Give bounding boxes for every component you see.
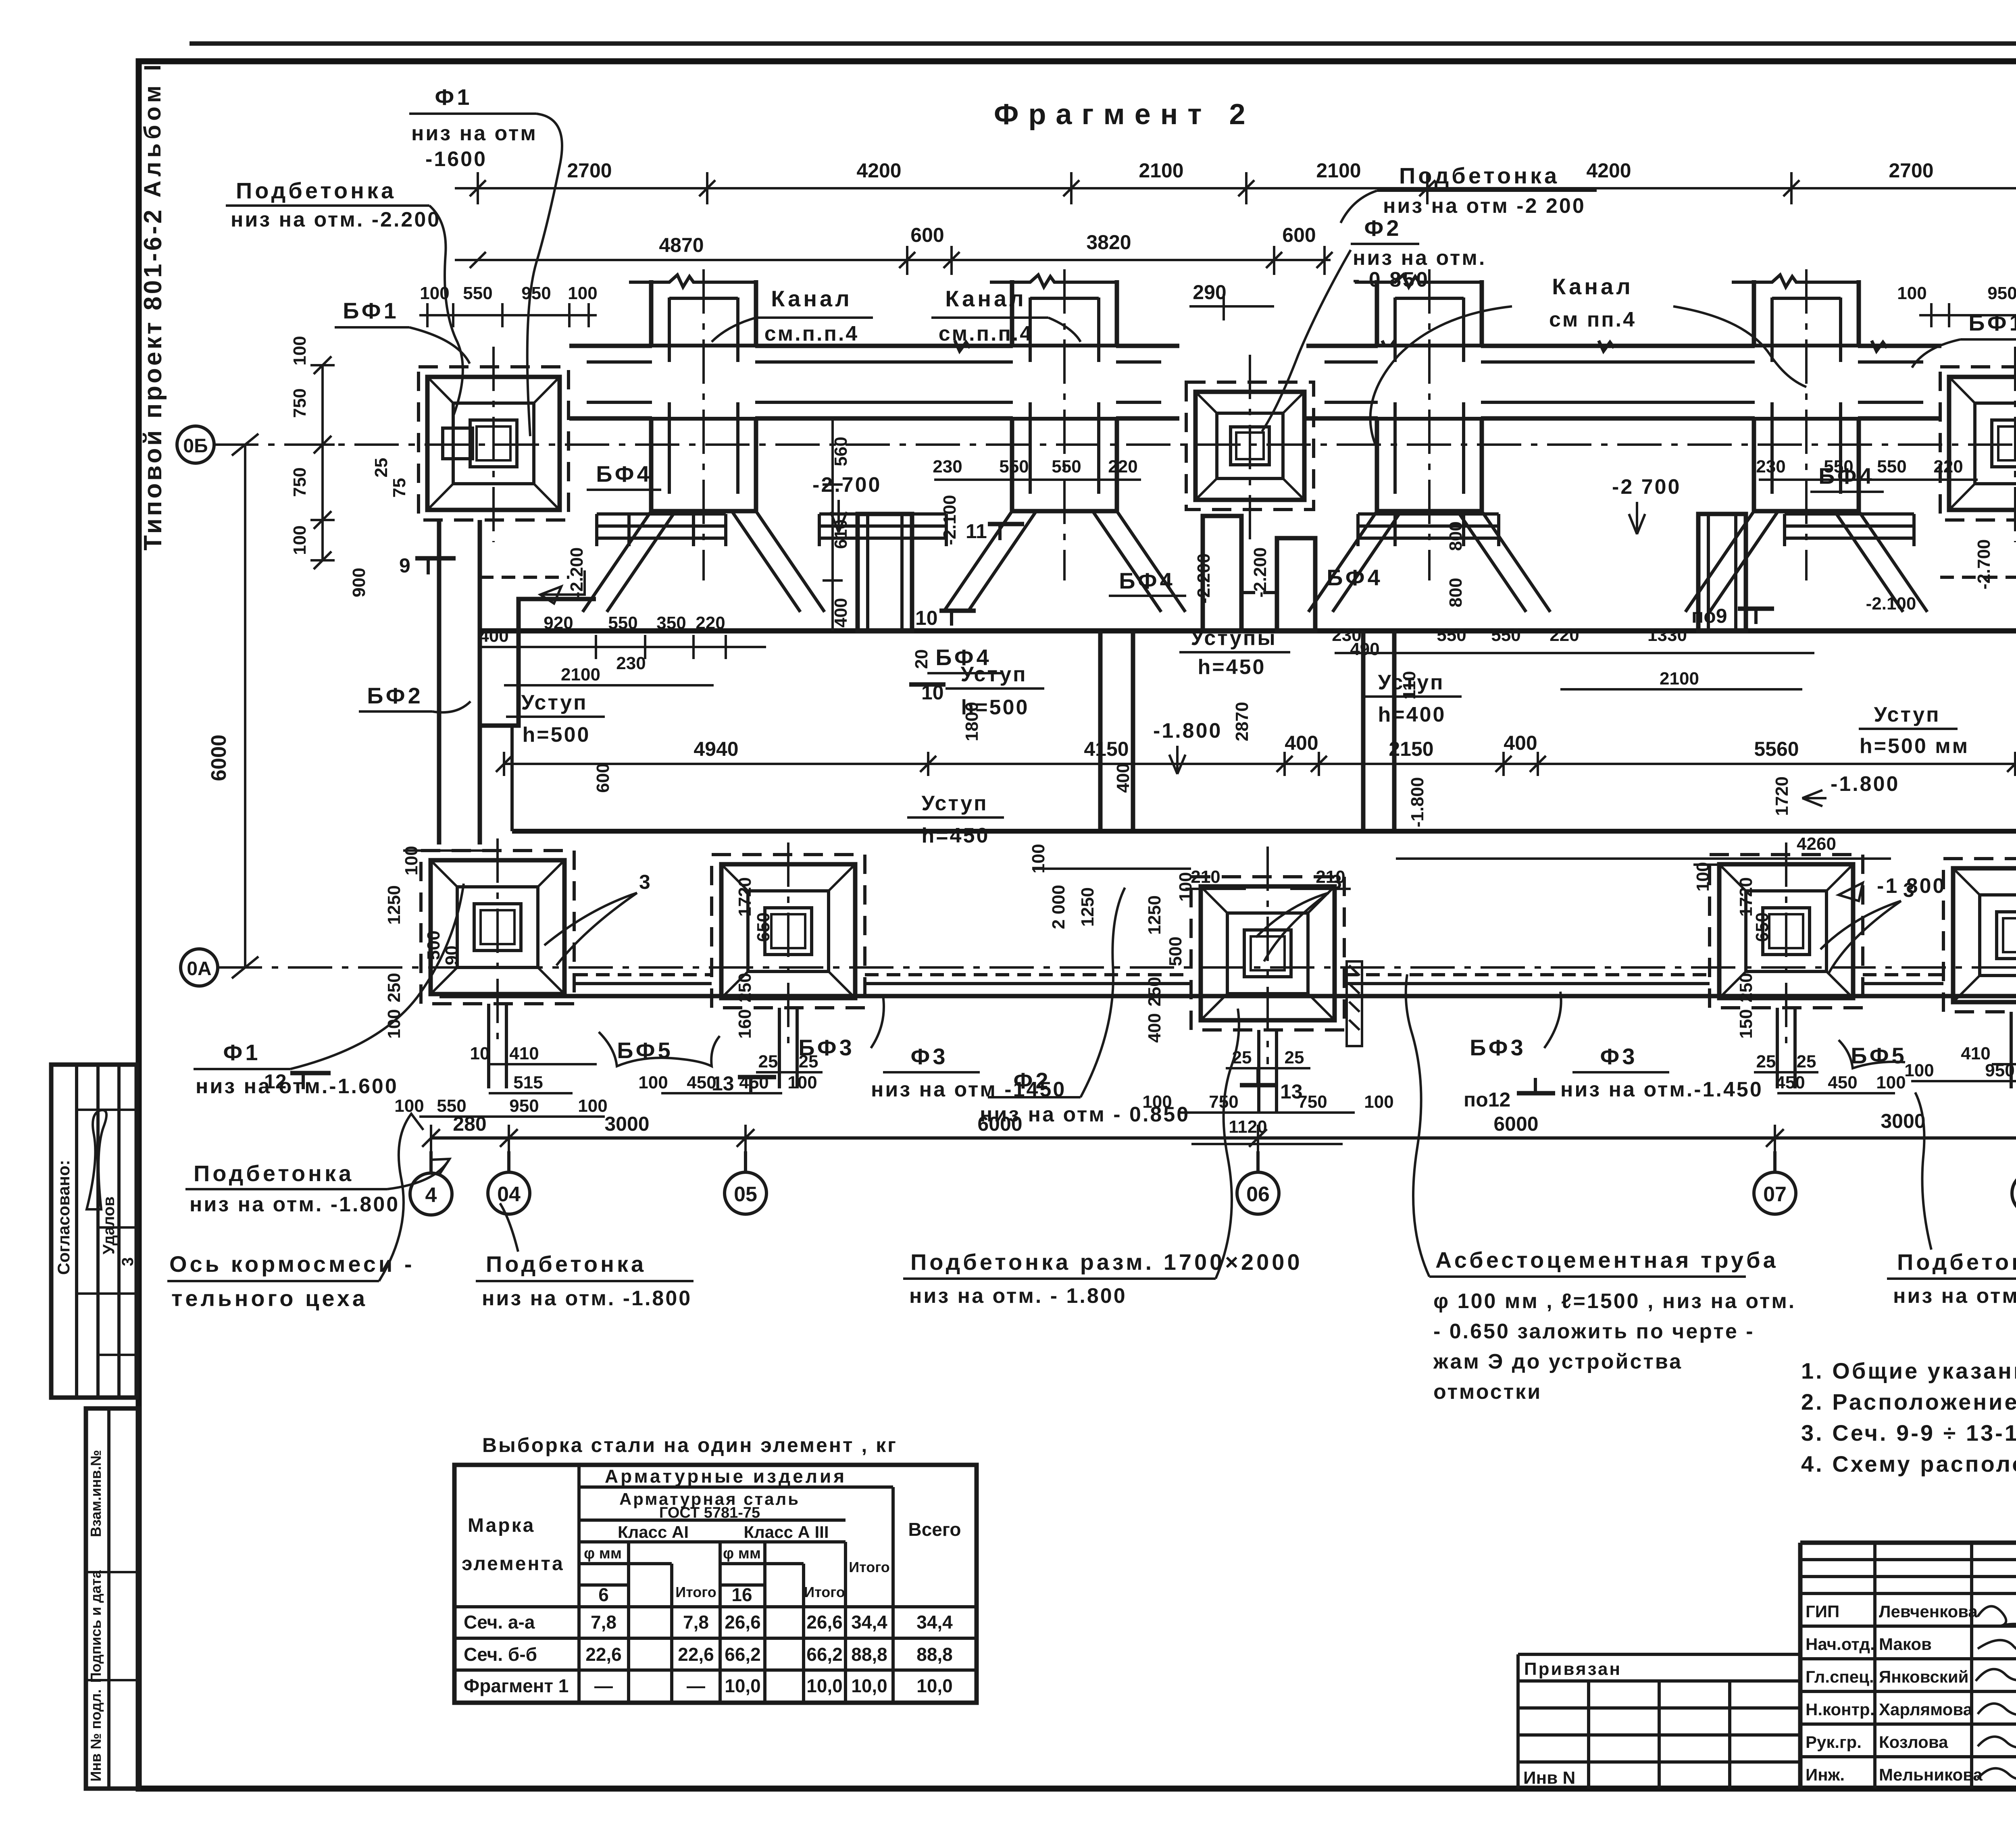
svg-text:Подбетонка разм. 1700×2000: Подбетонка разм. 1700×2000	[910, 1249, 1303, 1275]
svg-text:750: 750	[290, 467, 310, 497]
svg-text:низ на отм: низ на отм	[411, 122, 537, 145]
svg-text:75: 75	[389, 478, 409, 498]
svg-text:100: 100	[290, 525, 310, 555]
svg-text:650: 650	[754, 912, 773, 942]
svg-text:-2.100: -2.100	[1866, 594, 1916, 614]
svg-text:БФ4: БФ4	[1818, 463, 1874, 489]
svg-text:290: 290	[1193, 281, 1226, 304]
svg-text:1720: 1720	[1736, 877, 1756, 917]
svg-text:2100: 2100	[1660, 669, 1699, 689]
svg-text:13: 13	[712, 1072, 734, 1095]
svg-text:Согласовано:: Согласовано:	[54, 1160, 73, 1275]
svg-text:φ мм: φ мм	[584, 1545, 622, 1562]
signatures squiggles	[1976, 1606, 2016, 1780]
svg-text:100: 100	[578, 1096, 607, 1116]
svg-text:см.п.п.4: см.п.п.4	[939, 322, 1033, 345]
page top trim line	[190, 42, 2016, 46]
svg-text:Гл.спец.: Гл.спец.	[1806, 1667, 1874, 1686]
svg-text:Ось кормосмеси -: Ось кормосмеси -	[169, 1251, 415, 1277]
290 small dim	[1189, 305, 1274, 308]
svg-text:160: 160	[735, 1009, 755, 1038]
svg-text:Харлямова: Харлямова	[1879, 1700, 1973, 1719]
svg-text:низ на отм.: низ на отм.	[1353, 246, 1486, 270]
svg-text:1250: 1250	[384, 885, 404, 925]
svg-text:3: 3	[639, 871, 650, 893]
svg-text:550: 550	[463, 283, 492, 303]
svg-text:по9: по9	[1691, 605, 1727, 627]
svg-text:Ф3: Ф3	[1600, 1044, 1638, 1069]
svg-text:220: 220	[696, 613, 725, 633]
svg-text:2700: 2700	[1889, 159, 1933, 182]
100 vertical tags above bottom footings	[402, 844, 2016, 901]
svg-text:150: 150	[1736, 1009, 1756, 1038]
svg-text:Подбетонка: Подбетонка	[1897, 1249, 2016, 1275]
svg-text:950: 950	[521, 283, 551, 303]
cross 1	[583, 269, 825, 612]
svg-text:610: 610	[831, 519, 851, 549]
step notch left -2.200	[480, 599, 596, 726]
svg-text:600: 600	[593, 763, 613, 793]
svg-text:100: 100	[1876, 1073, 1906, 1092]
svg-text:515: 515	[513, 1073, 543, 1092]
svg-text:06: 06	[1246, 1183, 1270, 1206]
svg-text:Козлова: Козлова	[1879, 1733, 1948, 1751]
horizontals	[454, 1487, 977, 1670]
svg-text:600: 600	[910, 224, 944, 246]
svg-text:950: 950	[1985, 1061, 2014, 1080]
svg-text:0А: 0А	[187, 958, 211, 980]
svg-text:22,6: 22,6	[585, 1644, 622, 1665]
svg-text:1. Общие указания см. листы 1,: 1. Общие указания см. листы 1,2.	[1801, 1358, 2016, 1383]
svg-text:220: 220	[1549, 625, 1579, 645]
svg-text:410: 410	[509, 1044, 539, 1063]
svg-text:-1.800: -1.800	[1153, 719, 1222, 743]
svg-text:230: 230	[1756, 457, 1785, 476]
right dim chain y1560: 230 550 550 220 1330 / 2100	[1332, 625, 1814, 689]
svg-text:100: 100	[1897, 283, 1926, 303]
svg-text:950: 950	[1987, 283, 2016, 303]
svg-text:Уступ: Уступ	[1874, 703, 1940, 726]
svg-text:низ на отм.-1.450: низ на отм.-1.450	[1560, 1078, 1763, 1101]
svg-text:800: 800	[1446, 578, 1466, 607]
beams along axis 0A	[439, 994, 2016, 998]
svg-text:Итого: Итого	[675, 1584, 716, 1600]
svg-text:26,6: 26,6	[725, 1612, 761, 1633]
svg-text:25: 25	[1797, 1052, 1816, 1071]
svg-text:Левченкова: Левченкова	[1879, 1602, 1978, 1621]
svg-text:3. Сеч. 9-9 ÷ 13-13 см. лист 1: 3. Сеч. 9-9 ÷ 13-13 см. лист 15,14	[1801, 1420, 2016, 1446]
svg-text:11: 11	[966, 520, 987, 543]
svg-text:Подпись и дата: Подпись и дата	[87, 1570, 104, 1683]
left vertical dim chain at footing F1	[290, 336, 456, 597]
footing F1 top-left	[419, 283, 598, 542]
BF2 strip left vertical pair	[437, 520, 442, 845]
right footing bottom chain	[1911, 1080, 2016, 1082]
svg-text:250: 250	[1736, 973, 1756, 1002]
svg-text:4940: 4940	[694, 738, 738, 760]
lower foundation line	[512, 829, 2016, 834]
svg-text:10,0: 10,0	[851, 1675, 887, 1696]
svg-text:100: 100	[568, 283, 597, 303]
svg-text:05: 05	[734, 1183, 757, 1206]
svg-text:2150: 2150	[1389, 738, 1433, 760]
svg-text:Канал: Канал	[1552, 274, 1633, 299]
svg-text:низ на отм.-1.600: низ на отм.-1.600	[196, 1075, 398, 1098]
svg-text:Всего: Всего	[908, 1519, 961, 1540]
svg-text:-1.800: -1.800	[1831, 772, 1899, 796]
section markers bottom	[264, 1067, 2016, 1111]
svg-text:жам Э до устройства: жам Э до устройства	[1433, 1350, 1683, 1373]
svg-text:230: 230	[933, 457, 962, 476]
svg-text:-2.200: -2.200	[1250, 547, 1270, 598]
svg-text:БФ4: БФ4	[1327, 565, 1383, 590]
svg-text:900: 900	[349, 568, 369, 597]
svg-text:400: 400	[1504, 732, 1537, 754]
svg-text:25: 25	[1756, 1052, 1776, 1071]
main mid dim chain y1895	[496, 732, 2016, 776]
F1/F3/F2 bottom labels	[194, 884, 2016, 1126]
pedestal stems below footings	[489, 1004, 2016, 1113]
svg-text:34,4: 34,4	[851, 1612, 887, 1633]
understeps verticals to lower line	[1098, 631, 1103, 831]
svg-text:низ на отм. -2.200: низ на отм. -2.200	[231, 208, 441, 231]
svg-text:-1.800: -1.800	[1408, 777, 1427, 828]
ground baseline	[480, 628, 2016, 634]
channel wall double lines right segment	[1306, 344, 1941, 348]
svg-text:Класс А III: Класс А III	[744, 1523, 829, 1541]
data rows	[464, 1612, 953, 1696]
svg-text:3: 3	[1903, 879, 1914, 901]
svg-text:10,0: 10,0	[916, 1675, 953, 1696]
svg-text:2100: 2100	[1139, 159, 1183, 182]
svg-text:250: 250	[384, 973, 404, 1002]
top dim line row 1	[455, 187, 2016, 189]
svg-text:10: 10	[915, 607, 938, 629]
channel wall double lines left segment	[569, 344, 1179, 348]
dims above right footing	[1919, 314, 2016, 316]
svg-text:100: 100	[638, 1073, 668, 1092]
svg-text:Маков: Маков	[1879, 1635, 1932, 1654]
left dim chain y1545: 400 920 550 350 220	[479, 613, 766, 685]
vertical dim 6000 between axes	[244, 445, 246, 967]
svg-text:Н.контр.: Н.контр.	[1806, 1700, 1874, 1719]
svg-text:см пп.4: см пп.4	[1549, 308, 1636, 331]
svg-text:ГИП: ГИП	[1806, 1602, 1839, 1621]
svg-text:450: 450	[1775, 1073, 1805, 1092]
svg-text:550: 550	[1877, 457, 1906, 476]
cross 4	[1685, 269, 1927, 612]
axis circle 0B	[177, 426, 214, 463]
svg-text:650: 650	[1752, 912, 1772, 942]
svg-text:см.п.п.4: см.п.п.4	[764, 322, 859, 345]
svg-text:h=500: h=500	[523, 723, 591, 747]
svg-text:6: 6	[598, 1584, 609, 1605]
axis circle 0A	[181, 949, 218, 986]
svg-text:БФ1: БФ1	[1968, 310, 2016, 335]
svg-text:БФ5: БФ5	[1851, 1043, 1907, 1068]
svg-text:-2.200: -2.200	[1194, 553, 1214, 604]
svg-text:1720: 1720	[735, 877, 755, 917]
svg-text:низ на отм - 1.800: низ на отм - 1.800	[1893, 1284, 2016, 1308]
svg-text:Альбом I: Альбом I	[140, 60, 166, 198]
svg-text:Фрагмент 2: Фрагмент 2	[994, 98, 1255, 131]
sidebar table: agreed (Soglasovano)	[51, 1065, 137, 1398]
svg-text:6000: 6000	[977, 1113, 1022, 1135]
svg-text:500: 500	[1166, 936, 1185, 966]
svg-text:Марка: Марка	[468, 1515, 535, 1536]
svg-text:230: 230	[1332, 625, 1361, 645]
svg-text:Выборка стали на один элемент: Выборка стали на один элемент , кг	[482, 1434, 898, 1456]
left footing bottom chain	[419, 1115, 605, 1118]
top dim line row 2	[455, 259, 1331, 261]
svg-text:Уступы: Уступы	[1191, 626, 1277, 650]
footing 05 bottom	[712, 855, 865, 1008]
svg-text:350: 350	[656, 613, 686, 633]
svg-text:5560: 5560	[1754, 738, 1799, 760]
axis circles	[431, 1151, 2016, 1173]
svg-text:20: 20	[912, 649, 931, 669]
svg-text:Сеч. б-б: Сеч. б-б	[464, 1644, 537, 1665]
svg-text:4150: 4150	[1084, 738, 1129, 760]
svg-text:04: 04	[497, 1183, 521, 1206]
svg-text:3820: 3820	[1086, 231, 1131, 254]
svg-text:100: 100	[1693, 862, 1713, 891]
svg-text:Канал: Канал	[771, 286, 852, 311]
svg-text:7,8: 7,8	[683, 1612, 709, 1633]
svg-text:Итого: Итого	[804, 1584, 845, 1600]
svg-text:250: 250	[735, 973, 755, 1002]
svg-text:550: 550	[999, 457, 1029, 476]
svg-text:h=450: h=450	[1198, 655, 1266, 679]
piers below channel	[858, 514, 1746, 631]
outer pieces	[1800, 1541, 2016, 1545]
svg-text:22,6: 22,6	[678, 1644, 714, 1665]
BF4 labels	[587, 461, 1884, 673]
svg-text:230: 230	[616, 653, 646, 673]
svg-text:-2.100: -2.100	[940, 495, 960, 545]
svg-text:4. Схему расположения каналов: 4. Схему расположения каналов см лист 16…	[1801, 1451, 2016, 1477]
signature table	[1800, 1543, 2016, 1789]
svg-text:10,0: 10,0	[806, 1675, 843, 1696]
svg-text:h=400: h=400	[1378, 703, 1446, 726]
svg-text:Взам.инв.№: Взам.инв.№	[87, 1450, 104, 1537]
svg-text:Инж.: Инж.	[1806, 1765, 1845, 1784]
svg-text:—: —	[687, 1675, 705, 1696]
ustup callouts	[506, 626, 1969, 847]
svg-text:2870: 2870	[1232, 702, 1252, 741]
svg-text:2100: 2100	[1316, 159, 1361, 182]
svg-text:4260: 4260	[1797, 834, 1836, 854]
svg-text:280: 280	[453, 1113, 486, 1135]
svg-text:БФ4: БФ4	[596, 461, 652, 487]
svg-text:550: 550	[1052, 457, 1081, 476]
svg-text:1250: 1250	[1145, 895, 1164, 935]
asbestos pipe symbol	[1347, 961, 1362, 1046]
svg-text:Канал: Канал	[945, 286, 1027, 311]
svg-text:φ 100 мм , ℓ=1500 , низ на отм: φ 100 мм , ℓ=1500 , низ на отм.	[1433, 1290, 1796, 1313]
svg-text:Нач.отд.: Нач.отд.	[1806, 1635, 1875, 1654]
svg-text:66,2: 66,2	[806, 1644, 843, 1665]
svg-text:25: 25	[758, 1052, 778, 1071]
svg-text:БФ3: БФ3	[1470, 1035, 1526, 1060]
footing 08 bottom	[1943, 859, 2016, 1012]
svg-text:БФ1: БФ1	[343, 298, 399, 323]
svg-text:100: 100	[420, 283, 449, 303]
svg-text:—: —	[594, 1675, 613, 1696]
svg-text:3: 3	[1331, 871, 1342, 893]
sidebar strip: inv columns	[86, 1408, 139, 1789]
svg-text:Ф3: Ф3	[911, 1044, 948, 1069]
svg-text:220: 220	[1933, 457, 1963, 476]
svg-text:Янковский: Янковский	[1879, 1667, 1968, 1686]
svg-text:Привязан: Привязан	[1524, 1659, 1622, 1679]
svg-text:25: 25	[371, 458, 391, 478]
svg-text:БФ3: БФ3	[798, 1035, 854, 1060]
svg-text:250: 250	[1145, 977, 1164, 1006]
svg-text:Подбетонка: Подбетонка	[486, 1251, 646, 1277]
svg-text:560: 560	[831, 437, 851, 466]
svg-text:низ на отм. - 1.800: низ на отм. - 1.800	[909, 1284, 1127, 1308]
svg-text:450: 450	[1828, 1073, 1857, 1092]
svg-text:100: 100	[290, 336, 310, 365]
svg-text:500: 500	[424, 930, 444, 960]
svg-text:6000: 6000	[207, 734, 231, 781]
svg-text:10: 10	[470, 1044, 490, 1063]
svg-text:2. Расположение фрагмента см.: 2. Расположение фрагмента см. лист 11.	[1801, 1389, 2016, 1414]
svg-text:100: 100	[1904, 1061, 1934, 1080]
footing F2 top-middle	[1186, 355, 1314, 542]
"3" leaders on bottom footings	[544, 871, 1914, 974]
svg-text:- 0.650 заложить по черте -: - 0.650 заложить по черте -	[1433, 1320, 1755, 1343]
svg-text:Инв № подл.: Инв № подл.	[87, 1689, 104, 1782]
svg-text:550: 550	[608, 613, 637, 633]
svg-text:400: 400	[1145, 1013, 1164, 1042]
svg-text:Удалов: Удалов	[100, 1196, 118, 1254]
svg-text:800: 800	[1446, 521, 1466, 551]
svg-text:Типовой проект 801-6-2: Типовой проект 801-6-2	[139, 207, 167, 550]
svg-text:Инв N: Инв N	[1523, 1768, 1575, 1788]
cross 3	[1308, 269, 1550, 612]
svg-text:элемента: элемента	[462, 1553, 564, 1575]
4260 dim right	[1396, 857, 1891, 860]
svg-text:66,2: 66,2	[725, 1644, 761, 1665]
dashed hidden lines mid	[480, 576, 569, 579]
svg-text:-2.700: -2.700	[1974, 539, 1994, 590]
svg-text:4200: 4200	[856, 159, 901, 182]
svg-text:950: 950	[509, 1096, 539, 1116]
svg-text:Асбестоцементная труба: Асбестоцементная труба	[1435, 1247, 1779, 1273]
svg-text:БФ2: БФ2	[367, 683, 423, 708]
svg-text:6000: 6000	[1493, 1113, 1538, 1135]
svg-text:Ф1: Ф1	[223, 1040, 261, 1065]
svg-text:Ф2: Ф2	[1014, 1068, 1051, 1093]
svg-text:88,8: 88,8	[851, 1644, 887, 1665]
svg-text:1250: 1250	[1078, 887, 1098, 927]
svg-text:3000: 3000	[1881, 1110, 1925, 1132]
svg-text:400: 400	[479, 626, 508, 646]
svg-text:Итого: Итого	[849, 1559, 890, 1575]
svg-text:Ф1: Ф1	[435, 84, 473, 110]
footing 07 bottom	[1710, 855, 1863, 1008]
svg-text:-2 700: -2 700	[1612, 475, 1681, 499]
svg-text:07: 07	[1763, 1183, 1787, 1206]
svg-text:2 000: 2 000	[1049, 885, 1068, 929]
svg-text:низ на отм. -1.800: низ на отм. -1.800	[190, 1193, 400, 1216]
svg-text:Подбетонка: Подбетонка	[1399, 163, 1560, 188]
verticals	[579, 1465, 893, 1703]
svg-text:4200: 4200	[1586, 159, 1631, 182]
svg-text:600: 600	[1282, 224, 1316, 246]
bottom leader texts	[167, 974, 2016, 1404]
svg-text:100: 100	[394, 1096, 424, 1116]
svg-text:13: 13	[1280, 1080, 1303, 1103]
svg-text:ГОСТ 5781-75: ГОСТ 5781-75	[659, 1504, 760, 1521]
svg-text:16: 16	[731, 1584, 752, 1605]
svg-text:φ мм: φ мм	[723, 1545, 761, 1562]
svg-text:Подбетонка: Подбетонка	[236, 178, 396, 203]
svg-text:по12: по12	[1464, 1088, 1510, 1111]
svg-text:400: 400	[1113, 763, 1133, 793]
svg-text:550: 550	[1491, 625, 1520, 645]
footing 04 bottom	[421, 851, 574, 1004]
svg-text:-1600: -1600	[425, 148, 487, 171]
svg-text:Уступ: Уступ	[521, 691, 587, 714]
svg-text:Арматурные изделия: Арматурные изделия	[605, 1466, 847, 1487]
svg-text:низ на отм -2 200: низ на отм -2 200	[1383, 194, 1586, 218]
svg-text:210: 210	[1191, 867, 1220, 887]
svg-text:4: 4	[425, 1184, 437, 1207]
svg-text:Фрагмент 1: Фрагмент 1	[464, 1675, 569, 1696]
svg-text:Рук.гр.: Рук.гр.	[1806, 1733, 1862, 1751]
svg-text:1720: 1720	[1772, 776, 1792, 816]
dims above left footing	[419, 314, 597, 316]
svg-text:10,0: 10,0	[725, 1675, 761, 1696]
svg-text:2100: 2100	[561, 665, 600, 684]
svg-text:100: 100	[1364, 1092, 1393, 1112]
privyazan block	[1518, 1654, 1800, 1789]
svg-text:88,8: 88,8	[916, 1644, 953, 1665]
svg-text:400: 400	[831, 598, 851, 627]
svg-text:БФ4: БФ4	[935, 645, 991, 670]
svg-text:Уступ: Уступ	[921, 792, 988, 815]
small dim chains just below channel y1158	[933, 457, 1978, 480]
svg-text:h=500 мм: h=500 мм	[1860, 734, 1969, 758]
svg-text:9: 9	[399, 554, 410, 577]
small dims below footings	[394, 1044, 2016, 1144]
svg-text:Мельникова: Мельникова	[1879, 1765, 1983, 1784]
svg-text:низ на отм. -1.800: низ на отм. -1.800	[482, 1287, 692, 1310]
svg-text:26,6: 26,6	[806, 1612, 843, 1633]
svg-text:1800: 1800	[962, 702, 982, 741]
cross 2	[819, 269, 1185, 612]
section markers mid	[909, 520, 1774, 704]
svg-text:220: 220	[1108, 457, 1137, 476]
svg-text:Сеч. а-а: Сеч. а-а	[464, 1612, 535, 1633]
svg-text:Класс АI: Класс АI	[618, 1523, 689, 1541]
svg-text:Подбетонка: Подбетонка	[194, 1161, 354, 1186]
svg-text:2700: 2700	[567, 159, 612, 182]
rotated dims left of footings	[384, 877, 2016, 1043]
svg-text:550: 550	[1437, 625, 1466, 645]
svg-text:1330: 1330	[1647, 625, 1687, 645]
svg-text:100: 100	[787, 1073, 817, 1092]
svg-text:7,8: 7,8	[591, 1612, 616, 1633]
footing F1 top-right	[1897, 283, 2016, 542]
BF5 / BF3 labels	[599, 992, 1907, 1068]
svg-text:25: 25	[1285, 1048, 1304, 1067]
svg-text:БФ4: БФ4	[1119, 568, 1175, 593]
svg-text:3: 3	[119, 1257, 137, 1266]
